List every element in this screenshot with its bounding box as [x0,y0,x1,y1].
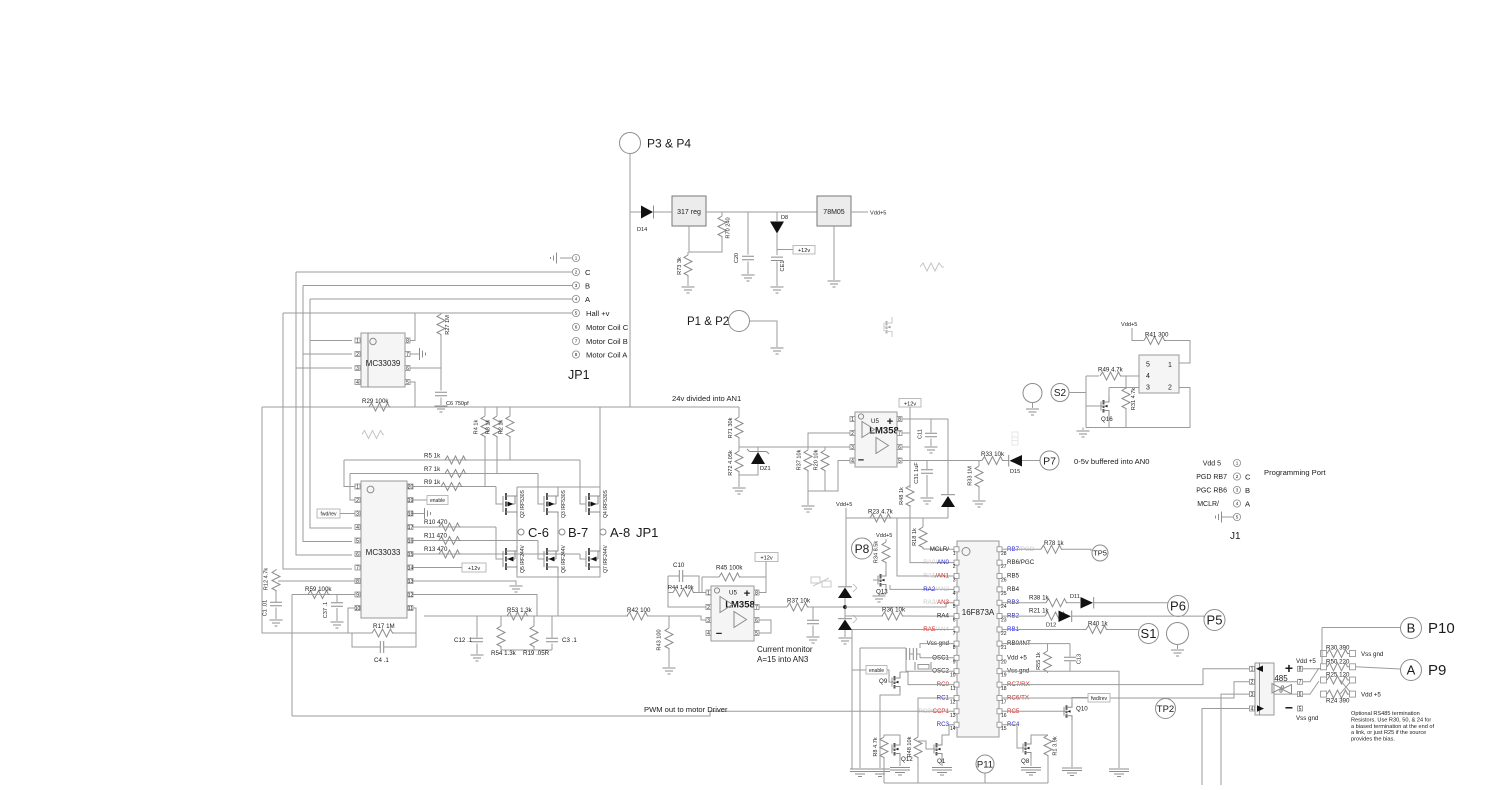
J1 pin 5 with gnd [1233,513,1240,520]
ground under clamp [839,638,852,644]
svg-text:7: 7 [575,339,578,344]
svg-text:R37 10k: R37 10k [797,449,803,470]
svg-text:R70 240: R70 240 [726,217,732,238]
ghost resistor faded near MC33039 [362,431,384,439]
connector JP1 pin 1 with ground cap [560,257,572,259]
svg-text:25: 25 [1001,591,1007,597]
svg-text:fwd/rev: fwd/rev [1091,696,1108,702]
wire JP1 A line [310,298,572,300]
svg-text:3: 3 [707,618,710,624]
svg-text:R34 8.5k: R34 8.5k [874,541,880,564]
svg-text:Vdd +5: Vdd +5 [1007,654,1027,661]
MC33039 pin 7 [405,352,410,357]
svg-text:C11: C11 [918,429,924,439]
resistor R48 10k [914,737,922,759]
test point TP5 [1092,545,1108,561]
svg-text:8: 8 [898,417,901,423]
svg-text:7: 7 [755,605,758,611]
enable net label at pin19 [413,499,427,501]
wire RB1 line [1002,629,1086,631]
LM358 U5a pin 6 [754,618,759,623]
svg-text:8: 8 [1299,667,1302,673]
svg-text:15: 15 [408,552,414,558]
wire MC33039 pin8 to Hall line [410,313,415,341]
wire MC33039 pin5 down to R29 line [410,382,415,407]
svg-text:4: 4 [575,297,578,302]
16F873A pin 27 RB6/PGC [997,560,1002,565]
svg-text:5: 5 [898,458,901,464]
wire RC4 to Q8 [1002,725,1023,748]
svg-text:C3 .1: C3 .1 [562,637,577,644]
resistor R33 1M [978,461,980,467]
wire Q2 gate [496,487,503,505]
transistor Q9 [887,670,892,682]
svg-text:Q1: Q1 [937,758,946,765]
svg-text:+12v: +12v [760,555,772,561]
svg-text:C6 750pf: C6 750pf [446,401,469,407]
wire OSC1 [920,657,954,659]
ground for P1/P2 [771,348,784,354]
svg-text:P6: P6 [1170,599,1186,614]
svg-text:R17 1M: R17 1M [373,623,395,630]
svg-text:R36 10k: R36 10k [882,607,906,614]
wire bottom rail [884,782,1048,784]
svg-text:Vdd +5: Vdd +5 [1361,692,1381,699]
capacitor C6 750pf [440,368,442,391]
MC33033 pin 1 [355,484,360,489]
resistor R38 1k [1046,599,1068,607]
wire Vdd+5 R23 line [846,517,948,519]
capacitor C1 .01 [270,602,282,605]
16F873A pin 25 RB4 [997,587,1002,592]
wire AN0 from R48 [910,505,954,563]
svg-text:3: 3 [851,445,854,451]
svg-text:JP1: JP1 [568,368,590,382]
wire bridge to sense [557,577,559,616]
svg-text:5: 5 [755,631,758,637]
svg-text:78M05: 78M05 [823,209,845,216]
485 pin 3 [1250,692,1255,697]
svg-text:24v divided into AN1: 24v divided into AN1 [672,394,741,403]
resistor R55 1k [1047,644,1049,651]
svg-text:4: 4 [1146,373,1150,380]
485 pin 8 [1298,666,1303,671]
enable net label [852,669,866,671]
485 pin 2 [1250,679,1255,684]
resistor R21 1k [1045,612,1067,620]
16F873A pin 28 RB7/PGD [997,547,1002,552]
connector JP1 pin 7 Motor Coil B [572,337,579,344]
MC33033 pin 16 [408,538,413,543]
svg-text:9: 9 [356,592,359,598]
svg-text:5: 5 [1146,362,1150,369]
svg-text:+: + [1285,660,1293,676]
svg-text:Q4 IRF530S: Q4 IRF530S [603,489,609,517]
svg-text:4: 4 [1251,706,1254,712]
svg-text:D8: D8 [781,215,788,221]
resistor R2 1k [509,407,511,416]
diode D11 [1081,597,1094,609]
svg-text:D15: D15 [1010,469,1020,475]
svg-text:16: 16 [408,538,414,544]
MC33033 pin 2 [355,498,360,503]
svg-text:12: 12 [950,700,956,706]
svg-text:C20: C20 [734,253,740,263]
resistor R1 3.9k [1031,735,1048,738]
capacitor C37 .1 [336,595,338,603]
svg-text:28: 28 [1001,551,1007,557]
ground under Q9 [870,769,890,777]
16F873A pin 16 RC5 [997,709,1002,714]
svg-text:6: 6 [356,552,359,558]
485 pin 4 [1250,706,1255,711]
wire 317 output rail [654,211,673,213]
svg-text:MCLR/: MCLR/ [1197,501,1219,508]
16F873A pin 19 Vss gnd [997,669,1002,674]
connector JP1 pin 5 Hall +v [572,309,579,316]
16F873A pin 26 RB5 [997,574,1002,579]
16F873A pin 17 RC6/TX [997,696,1002,701]
svg-text:R8 4.7k: R8 4.7k [873,737,879,756]
wire pin8 rail [902,418,948,420]
diode D8 [776,212,778,221]
ground under Q8 [1021,768,1041,776]
svg-text:R71 30k: R71 30k [728,417,734,438]
wire RC1 to R48 10k [918,698,954,737]
svg-text:19: 19 [408,498,414,504]
MC33033 pin 14 [408,565,413,570]
485 buffer triangles [1272,684,1292,695]
wire sense line [424,615,628,617]
svg-text:3: 3 [356,366,359,372]
wire Hall vertical to MC33033 pin7 [283,313,352,569]
wire RC6/TX to 485 [1002,682,1249,698]
wire pin6/5 feedback stub [759,620,771,633]
ground under C31 [921,498,934,504]
16F873A pin 9 OSC1 [954,655,959,660]
wire RB2 line [1002,615,1045,617]
16F873A pin 13 RC2/CCP1 [954,709,959,714]
transistor Q5 IRF244V [502,551,504,567]
LM358 U5a pin 4 [706,631,711,636]
16F873A pin 21 RB0/INT [997,641,1002,646]
resistor R53 1.3k [507,612,529,620]
resistor R31 4.7k [1125,376,1127,389]
svg-text:3: 3 [356,511,359,517]
MC33039 pin 8 [405,338,410,343]
svg-text:R13 470: R13 470 [424,546,448,553]
svg-text:Q10: Q10 [1076,706,1088,713]
svg-text:C: C [1245,473,1251,482]
wire RC5 to Q10 [1002,710,1064,712]
switch S1 [1139,624,1159,644]
LM358 U5a pin 5 [754,631,759,636]
svg-text:RA4: RA4 [937,613,950,620]
ground under R73 [682,287,695,293]
svg-text:R1 3.9k: R1 3.9k [1053,736,1059,755]
wire B vertical to R30 [1321,628,1323,665]
connector JP1 pin 8 Motor Coil A [572,351,579,358]
capacitor C3 .1 [551,616,553,638]
svg-text:6: 6 [953,618,956,624]
wire B vertical [303,286,352,542]
svg-text:0-5v buffered into AN0: 0-5v buffered into AN0 [1074,457,1149,466]
svg-text:Motor Coil C: Motor Coil C [586,323,629,332]
svg-text:Vdd +5: Vdd +5 [1296,658,1316,665]
svg-text:Hall +v: Hall +v [586,309,610,318]
wire 24v drop to bridge [599,407,601,487]
MC33033 pin 20 [408,484,413,489]
wire JP1 B line [303,285,572,287]
MC33039 pin 4 [355,380,360,385]
wire 24v feed from P3/P4 down [629,154,631,408]
wire pin10 [348,608,355,633]
svg-text:Optional RS485 termination: Optional RS485 termination [1351,711,1420,717]
16F873A pin 24 RB3 [997,600,1002,605]
wire Vdd+5 output [851,211,868,213]
wire pin6 stub [902,446,910,448]
ground under CE1 [771,287,784,293]
wire opto pin2 [1086,388,1190,428]
svg-text:C37 .1: C37 .1 [323,602,329,618]
svg-text:2: 2 [1236,474,1239,479]
MC33033 pin 10 [355,606,360,611]
resistor R33 10k [982,457,1004,465]
LM358 U5a pin 7 [754,605,759,610]
resistor R71 30k [738,407,740,417]
svg-text:R2 1k: R2 1k [499,419,505,434]
MC33039 pin 1 [355,338,360,343]
wire JP1 Hall +v line [283,312,572,314]
wire S2 to gate [1069,392,1086,394]
svg-text:A=15 into AN3: A=15 into AN3 [757,655,809,664]
svg-text:2: 2 [356,498,359,504]
resistor R78 1k [1041,545,1063,553]
16F873A pin 2 RA0/AN0 [954,560,959,565]
resistor R18 1k [922,518,924,527]
svg-text:Vdd 5: Vdd 5 [1203,461,1221,468]
ground under R33 1M [973,501,986,507]
svg-text:Motor Coil A: Motor Coil A [586,351,628,360]
svg-text:5: 5 [1236,515,1239,520]
ghost trimmer widget [811,577,831,587]
connector P11 [976,755,994,773]
svg-text:R72 4.05k: R72 4.05k [728,450,734,476]
resistor R37 10k (signal) [787,603,809,611]
svg-text:21: 21 [1001,645,1007,651]
16F873A pin 23 RB2 [997,614,1002,619]
resistor R41 300 [1132,328,1144,341]
wire bridge bus rectangle [517,487,600,577]
ground under R72 [733,488,746,494]
wire OSC2 [906,655,954,671]
wire to D14 [630,211,641,213]
svg-text:19: 19 [1001,673,1007,679]
wire 485 B line [1303,668,1322,670]
svg-text:fwd/rev: fwd/rev [320,512,337,518]
svg-text:R38 1k: R38 1k [1029,595,1050,602]
svg-text:5: 5 [406,380,409,386]
svg-text:Current monitor: Current monitor [757,645,813,654]
ground under C11 [925,447,938,453]
16F873A pin 8 Vss gnd [954,641,959,646]
svg-text:22: 22 [1001,631,1007,637]
16F873A pin 6 RA4 [954,614,959,619]
svg-text:R41 300: R41 300 [1145,332,1169,339]
svg-text:LM358: LM358 [725,600,755,611]
svg-text:1: 1 [1236,461,1239,466]
clamp diode upper [838,588,852,599]
svg-text:R7 1k: R7 1k [424,466,441,473]
svg-text:8: 8 [755,590,758,596]
op-amp U5 LM358 (current monitor) [711,586,754,641]
node C-6 [518,529,524,535]
svg-text:R19 .05R: R19 .05R [523,650,550,657]
node AN3 junction [843,605,847,609]
MC33033 pin 3 [355,511,360,516]
wire Q3 gate [538,474,544,505]
+12v net label [777,249,793,251]
connector P3 & P4 [620,133,641,154]
svg-text:S2: S2 [1054,388,1067,399]
clamp diode lower [838,620,852,631]
svg-text:18: 18 [1001,686,1007,692]
485 TX arrow [1257,705,1264,712]
resistor R3 1k [496,407,498,416]
node A-8 [600,529,606,535]
wire MC33039 pin6 to R27/C6 [410,367,441,369]
wire RA4 line [845,615,883,617]
svg-text:RA2/AN2: RA2/AN2 [923,586,949,593]
16F873A pin 15 RC4 [997,722,1002,727]
wire AN1 divider drop [897,518,954,576]
svg-text:Resistors. Use R30, 50, & 24 f: Resistors. Use R30, 50, & 24 for [1351,717,1431,723]
wire pin2 [808,433,850,450]
resistor R5 1k [344,459,580,461]
wire Q6 gate [538,541,544,560]
wire MC33039 pin7 to ground [410,353,419,355]
resistor R9 1k (pin20) [413,486,496,488]
wire RC0 to Q9 [900,672,954,685]
svg-text:P3 & P4: P3 & P4 [647,137,691,151]
svg-text:R49 4.7k: R49 4.7k [1098,367,1124,374]
svg-text:2: 2 [575,270,578,275]
svg-text:3: 3 [1251,692,1254,698]
16F873A pin 12 RC1 [954,696,959,701]
svg-text:5: 5 [575,311,578,316]
svg-text:DZ1: DZ1 [760,466,771,472]
svg-text:8: 8 [406,338,409,344]
capacitor C13 [1069,644,1071,657]
svg-text:8: 8 [575,352,578,357]
svg-text:B: B [585,282,590,291]
MC33033 pin 19 [408,498,413,503]
transistor Q4 IRF530S [585,496,587,512]
J1 pin 3 [1233,486,1240,493]
op-amp U5 LM358 (buffer) [855,412,897,467]
svg-text:6: 6 [575,325,578,330]
transistor Q6 IRF244V [543,551,545,567]
svg-text:2: 2 [1168,385,1172,392]
svg-text:P7: P7 [1043,455,1056,467]
LM358 U5a pin 8 [754,590,759,595]
svg-text:PWM out to motor Driver: PWM out to motor Driver [644,705,728,714]
svg-text:P8: P8 [855,542,870,556]
wire pin2 to R7 line [350,474,355,501]
transistor Q3 IRF530S [543,496,545,512]
svg-text:Vdd+5: Vdd+5 [876,533,892,539]
LM358 U5b pin 8 [897,417,902,422]
resistor R43 100 [668,616,670,628]
svg-text:RB5: RB5 [1007,573,1020,580]
svg-text:Vdd+5: Vdd+5 [870,211,886,217]
wire opto pin3 [1109,387,1139,389]
svg-text:−: − [1285,700,1293,716]
LM358 U5b pin 1 [850,417,855,422]
wire +12v vertical to R48 [909,407,911,488]
ground under C37 [331,622,344,628]
resistor R27 1M [440,313,442,314]
node B-7 [559,529,565,535]
+12v net label buffer [899,399,921,408]
svg-text:7: 7 [1299,680,1302,686]
connector circle right of S1 [1167,623,1189,645]
wire PWM riser [291,595,293,717]
svg-text:C: C [585,268,591,277]
MC33033 pin 9 [355,592,360,597]
wire pin5 output [902,460,982,462]
svg-text:R10 470: R10 470 [424,519,448,526]
LM358 U5b pin 2 [850,431,855,436]
svg-text:MC33039: MC33039 [366,359,401,368]
svg-text:R3 1k: R3 1k [486,419,492,434]
wire R30/R50 vertical joins [1321,651,1323,665]
svg-text:24: 24 [1001,604,1007,610]
wire Vss gnd pin8 [920,644,954,648]
wire phase B column [557,487,559,491]
svg-text:16F873A: 16F873A [962,608,995,617]
wire C vertical [296,272,352,555]
svg-text:7: 7 [406,352,409,358]
diode to rail (MCLR clamp) [941,496,955,507]
svg-text:2: 2 [953,564,956,570]
svg-text:6: 6 [898,445,901,451]
capacitor C11 [930,419,932,433]
svg-text:2: 2 [1251,680,1254,686]
wire pin12 to sense line [413,595,537,617]
svg-text:11: 11 [950,686,955,692]
capacitor C4 .1 [352,633,380,647]
capacitor C12 .1 [476,616,478,638]
svg-text:R18 1k: R18 1k [912,528,918,546]
MC33039 pin 5 [405,380,410,385]
wire 24v rail horizontal [262,406,739,408]
transistor Q7 IRF244V [585,551,587,567]
svg-text:Vdd+5: Vdd+5 [836,502,852,508]
svg-text:Q6 IRF244V: Q6 IRF244V [561,544,567,572]
ground under filter cap [807,637,820,643]
resistor R45 100k feedback [702,576,719,578]
svg-text:+12v: +12v [468,566,480,572]
svg-text:4: 4 [356,380,359,386]
ground under C1 [270,620,283,626]
MC33033 pin 6 [355,552,360,557]
svg-text:C13: C13 [1077,654,1083,664]
transistor Q1 [933,745,935,754]
wire pin13 to ground [413,581,516,585]
transistor Q13 [877,576,879,585]
svg-text:R4 1k: R4 1k [474,419,480,434]
